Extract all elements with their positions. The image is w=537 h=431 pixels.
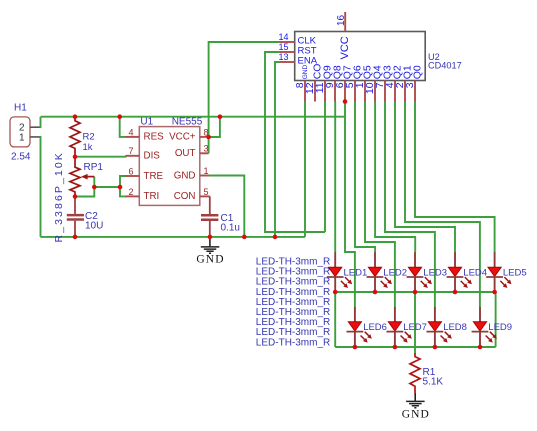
wire H1 pin2 to V+ rail	[40, 117, 41, 128]
svg-text:R_3386P_10K: R_3386P_10K	[53, 151, 65, 242]
wire U1 GND to ground rail	[209, 176, 244, 237]
U1 pin 3 OUT	[175, 144, 209, 159]
wire node A to node B	[94, 186, 120, 188]
svg-text:OUT: OUT	[175, 148, 196, 159]
U1 pin 1 GND	[174, 166, 209, 181]
svg-text:1: 1	[19, 133, 25, 144]
svg-text:LED5: LED5	[503, 267, 527, 278]
svg-text:10U: 10U	[85, 221, 103, 232]
node C1 ground junction	[208, 235, 213, 240]
IC U2 CD4017 body	[295, 32, 462, 81]
U1 pin 6 TRE	[126, 166, 164, 181]
wire Q1 to LED9	[405, 102, 480, 308]
svg-text:H1: H1	[14, 103, 27, 114]
LED LED2	[367, 252, 407, 292]
wire left cathode link	[334, 292, 336, 347]
svg-text:5: 5	[204, 187, 209, 197]
U1 pin 8 VCC+	[169, 127, 209, 142]
U2 pin 1 Q5	[354, 65, 374, 101]
wire node B to U1 TRE	[120, 176, 127, 187]
wire right cathode link	[495, 292, 496, 347]
U2 pin 13 ENA	[278, 52, 317, 66]
node LED3 cathode	[413, 290, 418, 295]
svg-text:13: 13	[278, 52, 288, 62]
node U1 GND ground junction	[242, 235, 247, 240]
svg-text:4: 4	[128, 127, 133, 137]
node ENA ground junction	[273, 235, 278, 240]
svg-text:DIS: DIS	[144, 151, 161, 162]
svg-text:0.1u: 0.1u	[221, 223, 240, 234]
svg-text:5.1K: 5.1K	[423, 377, 444, 388]
node LED5 cathode	[492, 290, 497, 295]
svg-text:LED6: LED6	[363, 322, 387, 333]
svg-text:LED1: LED1	[344, 267, 368, 278]
wire U2 GND pin8 to ground rail	[304, 102, 306, 237]
U2 pin 8 GND	[294, 65, 309, 102]
wire U2 ENA to ground rail	[275, 62, 280, 237]
LED LED8	[427, 307, 467, 347]
wire Q2 to LED4	[395, 102, 455, 253]
node B TRE/TRI junction	[118, 185, 123, 190]
LED LED9	[472, 307, 512, 347]
svg-text:CD4017: CD4017	[428, 60, 462, 70]
svg-text:1k: 1k	[83, 142, 93, 153]
svg-text:NE555: NE555	[172, 116, 203, 127]
node LED6 cathode	[353, 345, 358, 350]
capacitor C2 10U	[67, 197, 104, 237]
svg-text:RES: RES	[144, 132, 165, 143]
wire U2 RST to Q9	[265, 52, 325, 232]
resistor R1 5.1K	[410, 353, 443, 393]
wire R2 bottom to U1 DIS	[75, 156, 127, 158]
LED LED1	[327, 252, 367, 292]
svg-text:3: 3	[404, 82, 416, 88]
svg-text:LED3: LED3	[423, 267, 447, 278]
wire U1 VCC+ node to V+ rail	[209, 117, 220, 137]
wire Q9 down	[324, 102, 326, 233]
U2 pin 5 Q6	[344, 65, 364, 101]
U2 pin 10 Q4	[364, 65, 384, 101]
node Q7 pin junction	[343, 99, 348, 104]
svg-text:VCC+: VCC+	[169, 132, 196, 143]
svg-text:GND: GND	[402, 409, 430, 421]
svg-text:LED-TH-3mm_R: LED-TH-3mm_R	[256, 337, 330, 348]
svg-text:CON: CON	[174, 191, 196, 202]
U2 pin 12 CO	[304, 64, 324, 102]
U2 pin 2 Q1	[394, 65, 414, 101]
wire top cathode rail	[335, 291, 494, 293]
ground (under C1)	[196, 237, 224, 266]
U2 pin 15 RST	[278, 42, 316, 56]
LED LED4	[447, 252, 487, 292]
svg-text:LED4: LED4	[463, 267, 487, 278]
node LED7 cathode	[393, 345, 398, 350]
LED LED5	[486, 252, 526, 292]
svg-text:LED2: LED2	[383, 267, 407, 278]
resistor R2 1k	[70, 117, 95, 157]
ground (under R1)	[402, 393, 430, 421]
wire Q3 to LED8	[385, 102, 435, 308]
wire Q8 to LED1	[334, 102, 336, 253]
svg-text:U1: U1	[140, 116, 153, 127]
U2 pin 16 VCC	[336, 12, 351, 60]
connector H1	[10, 103, 40, 163]
svg-text:3: 3	[204, 144, 209, 154]
wire RP1 wiper down to node A	[93, 177, 95, 187]
node LED1 cathode	[333, 290, 338, 295]
node RES rail junction	[117, 114, 122, 119]
svg-text:RP1: RP1	[84, 162, 104, 173]
wire H1 pin1 down to ground rail	[40, 137, 41, 237]
svg-text:GND: GND	[174, 170, 196, 181]
svg-text:16: 16	[336, 14, 347, 26]
svg-text:GND: GND	[302, 65, 309, 80]
wire ground rail	[41, 236, 306, 238]
U2 pin 14 CLK	[278, 32, 316, 46]
node VCC+ rail junction	[218, 114, 223, 119]
wire cathode rail to R1	[414, 292, 416, 353]
U1 pin 7 DIS	[126, 146, 161, 161]
wire U1 RES to V+ rail	[120, 117, 127, 137]
svg-text:LED9: LED9	[488, 322, 512, 333]
capacitor C1 0.1u	[201, 196, 240, 237]
svg-text:LED8: LED8	[443, 322, 467, 333]
node R2 top junction	[73, 114, 78, 119]
LED LED3	[407, 252, 447, 292]
svg-text:Q0: Q0	[412, 65, 424, 79]
svg-text:TRE: TRE	[144, 171, 164, 182]
U1 pin 2 TRI	[126, 187, 160, 202]
U1 pin 5 CON	[174, 187, 210, 202]
node LED8 cathode	[433, 345, 438, 350]
wire U2 CLK to U1 OUT	[209, 42, 280, 153]
node LED9 cathode	[478, 345, 483, 350]
wire Q0 to LED5	[415, 102, 495, 253]
svg-text:6: 6	[128, 166, 133, 176]
node LED4 cathode	[453, 290, 458, 295]
node C2 ground junction	[73, 235, 78, 240]
svg-text:14: 14	[278, 32, 288, 42]
wire Q5 to LED7	[365, 102, 395, 308]
wire bottom cathode rail	[335, 346, 495, 348]
node A wiper junction	[92, 185, 97, 190]
LED LED6	[347, 307, 387, 347]
wire Q7 to LED6	[345, 102, 355, 308]
svg-text:LED7: LED7	[403, 322, 427, 333]
svg-text:2.54: 2.54	[11, 151, 31, 162]
label LED-TH-3mm_R list	[256, 257, 330, 349]
potentiometer RP1 R_3386P_10K	[53, 151, 104, 242]
op-amp U1 NE555 body	[139, 116, 202, 205]
svg-text:7: 7	[128, 146, 133, 156]
node VCC+/OUT/CLK junction	[206, 135, 211, 140]
U2 pin 3 Q0	[404, 65, 424, 101]
svg-text:VCC: VCC	[339, 36, 351, 59]
U1 pin 4 RES	[126, 127, 165, 142]
wire Q6 to LED2	[355, 102, 375, 253]
wire V+ rail (H1 pin2 to Q7 column)	[41, 116, 346, 118]
node LED2 cathode	[373, 290, 378, 295]
U2 pin 9 Q8	[324, 65, 344, 101]
wire node B to U1 TRI	[120, 187, 127, 196]
svg-text:15: 15	[278, 42, 288, 52]
U2 pin 11 Q9	[314, 65, 334, 101]
U2 pin 6 Q7	[334, 65, 354, 101]
svg-text:TRI: TRI	[144, 191, 160, 202]
svg-text:GND: GND	[196, 254, 224, 266]
svg-text:1: 1	[204, 166, 209, 176]
LED LED7	[387, 307, 427, 347]
wire Q4 to LED3	[375, 102, 415, 253]
node RP1 bottom / C2 junction	[73, 194, 78, 199]
node R2 bottom / DIS junction	[73, 154, 78, 159]
wire node A down to RP1 bottom	[75, 187, 94, 197]
U2 pin 7 Q3	[374, 65, 394, 101]
U2 pin 4 Q2	[384, 65, 404, 101]
svg-text:2: 2	[128, 187, 133, 197]
